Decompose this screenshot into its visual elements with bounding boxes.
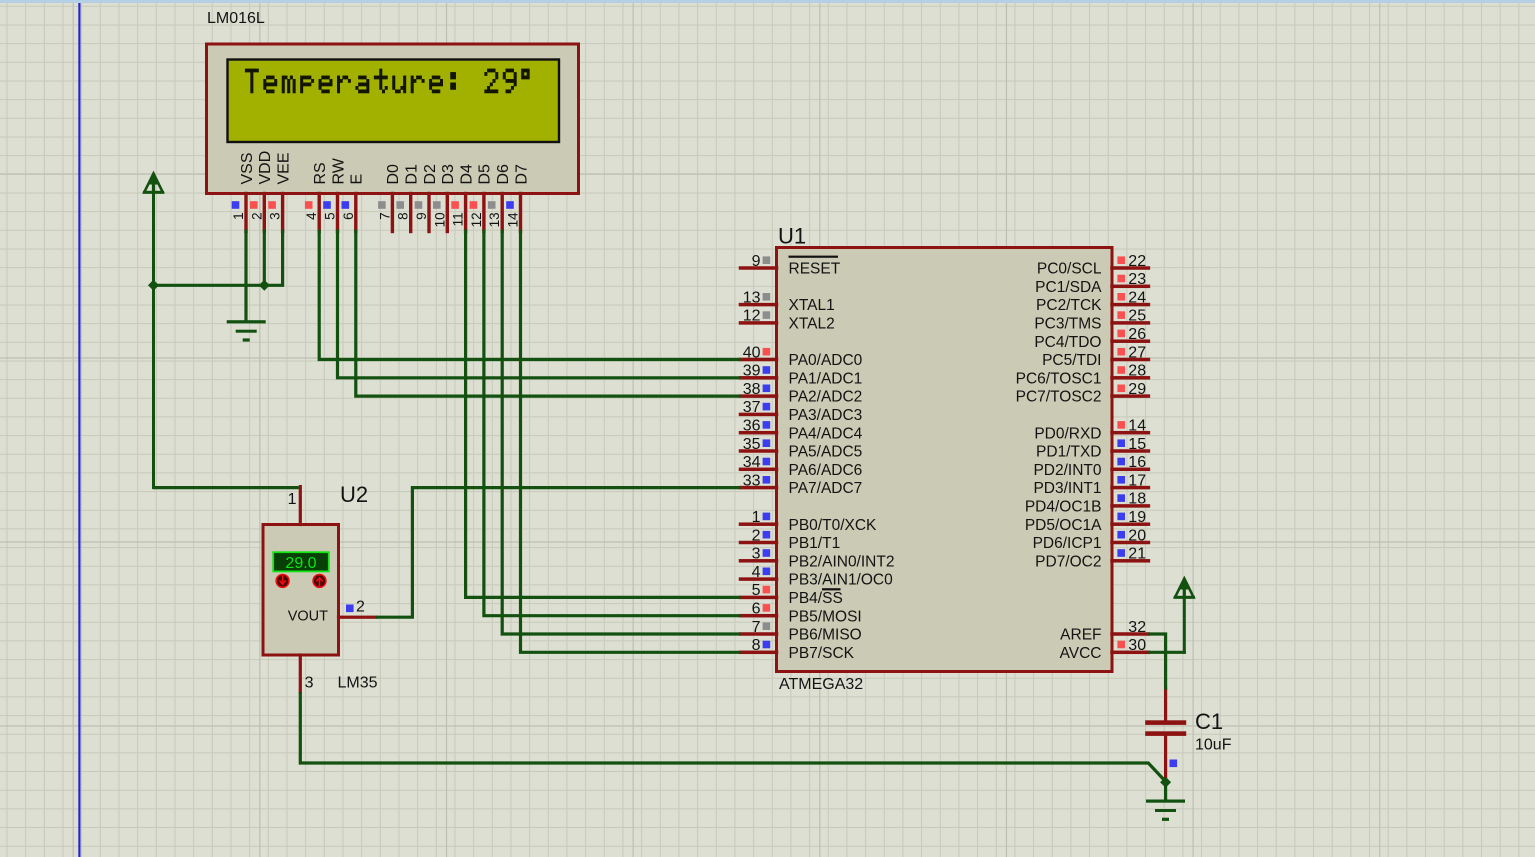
U1 pin 8 (PB7/SCK) left xyxy=(739,637,855,662)
svg-text:D6: D6 xyxy=(495,164,512,185)
svg-text:PA6/ADC6: PA6/ADC6 xyxy=(789,462,863,479)
svg-text:35: 35 xyxy=(743,436,761,453)
U1 pin 14 (PD0/RXD) right xyxy=(1034,418,1150,443)
svg-text:14: 14 xyxy=(1128,418,1146,435)
svg-text:PD7/OC2: PD7/OC2 xyxy=(1035,553,1101,570)
ground (below LCD VSS) xyxy=(227,320,266,341)
svg-text:9: 9 xyxy=(752,253,761,270)
wire vcc to U2 pin 1 xyxy=(154,486,299,489)
LCD pin 1 (VSS) xyxy=(231,152,256,233)
svg-text:1: 1 xyxy=(752,509,761,526)
U1 pin 12 (XTAL2) left xyxy=(739,308,835,333)
svg-text:PD6/ICP1: PD6/ICP1 xyxy=(1033,535,1102,552)
U1 pin 2 (PB1/T1) left xyxy=(739,527,840,552)
svg-text:PA7/ADC7: PA7/ADC7 xyxy=(789,480,863,497)
power terminal (top left) xyxy=(143,174,164,490)
svg-text:29.0: 29.0 xyxy=(285,555,316,572)
svg-text:VDD: VDD xyxy=(257,151,274,185)
U2 value label LM35 xyxy=(338,675,378,692)
U1 pin 24 (PC2/TCK) right xyxy=(1036,289,1150,314)
svg-text:ATMEGA32: ATMEGA32 xyxy=(779,676,863,693)
svg-text:U2: U2 xyxy=(340,482,368,507)
junction at ground net xyxy=(1160,777,1171,788)
svg-text:AVCC: AVCC xyxy=(1060,645,1102,662)
svg-text:D1: D1 xyxy=(404,164,421,185)
wire D4 to PB4 xyxy=(466,230,741,598)
U1 pin 28 (PC6/TOSC1) right xyxy=(1016,363,1151,388)
svg-text:14: 14 xyxy=(506,212,521,228)
U1 value label ATMEGA32 xyxy=(779,676,863,693)
wire U2 VOUT to PA7 xyxy=(376,488,741,618)
svg-text:PC0/SCL: PC0/SCL xyxy=(1037,261,1102,278)
U2 decrement knob xyxy=(276,575,289,588)
LCD module LM016L label xyxy=(207,10,265,27)
U2 reference label xyxy=(340,482,368,507)
svg-text:27: 27 xyxy=(1128,344,1146,361)
svg-text:40: 40 xyxy=(743,344,761,361)
svg-text:19: 19 xyxy=(1128,509,1146,526)
wire E to PA2 xyxy=(356,230,741,397)
svg-text:PC4/TDO: PC4/TDO xyxy=(1034,334,1101,351)
svg-text:D4: D4 xyxy=(458,164,475,185)
U1 reference label xyxy=(778,224,806,249)
microcontroller U1 ATMEGA32 body xyxy=(777,248,1113,672)
svg-text:PB7/SCK: PB7/SCK xyxy=(789,645,855,662)
ground (bottom right) xyxy=(1146,800,1185,821)
svg-text:PC1/SDA: PC1/SDA xyxy=(1035,279,1102,296)
capacitor C1 xyxy=(1145,687,1186,781)
U1 pin 23 (PC1/SDA) right xyxy=(1035,271,1150,296)
svg-text:PD3/INT1: PD3/INT1 xyxy=(1033,480,1101,497)
U1 pin 33 (PA7/ADC7) left xyxy=(739,472,863,497)
svg-text:28: 28 xyxy=(1128,363,1146,380)
svg-text:PA2/ADC2: PA2/ADC2 xyxy=(789,389,863,406)
svg-text:6: 6 xyxy=(752,601,761,618)
svg-text:4: 4 xyxy=(752,564,761,581)
svg-text:16: 16 xyxy=(1128,454,1146,471)
LCD pin 11 (D4) xyxy=(451,164,476,233)
U1 pin 5 (PB4/SS) left xyxy=(739,582,843,607)
wire D6 to PB6 xyxy=(502,230,740,635)
power terminal (right, AVCC) xyxy=(1174,579,1195,654)
C1 reference label xyxy=(1195,709,1223,734)
svg-text:24: 24 xyxy=(1128,289,1146,306)
svg-text:E: E xyxy=(349,174,366,185)
svg-text:PA3/ADC3: PA3/ADC3 xyxy=(789,407,863,424)
U1 pin 34 (PA6/ADC6) left xyxy=(739,454,863,479)
U1 pin 15 (PD1/TXD) right xyxy=(1036,436,1150,461)
U1 pin 32 (AREF) right xyxy=(1060,619,1150,644)
svg-text:RW: RW xyxy=(330,157,347,184)
svg-text:18: 18 xyxy=(1128,491,1146,508)
svg-text:2: 2 xyxy=(249,212,264,220)
svg-text:5: 5 xyxy=(323,212,338,220)
svg-text:PB1/T1: PB1/T1 xyxy=(789,535,841,552)
U1 pin 18 (PD4/OC1B) right xyxy=(1025,491,1150,516)
svg-text:VEE: VEE xyxy=(275,152,292,184)
wire U2 pin 3 to ground net xyxy=(300,692,1165,781)
svg-text:7: 7 xyxy=(377,212,392,220)
wire VDD down to vcc rail xyxy=(263,230,266,286)
U1 pin 22 (PC0/SCL) right xyxy=(1037,253,1150,278)
U2 increment knob xyxy=(313,575,326,588)
U2 pin 2 (VOUT) xyxy=(288,599,378,625)
svg-text:PB2/AIN0/INT2: PB2/AIN0/INT2 xyxy=(789,553,895,570)
svg-text:PC3/TMS: PC3/TMS xyxy=(1034,316,1101,333)
svg-text:RS: RS xyxy=(312,162,329,184)
LCD pin 10 (D3) xyxy=(432,164,457,233)
U1 pin 4 (PB3/AIN1/OC0) left xyxy=(739,564,893,589)
svg-text:D7: D7 xyxy=(513,164,530,185)
LCD pin 6 (E) xyxy=(341,174,366,233)
svg-text:VOUT: VOUT xyxy=(288,609,328,625)
svg-text:38: 38 xyxy=(743,381,761,398)
svg-text:LM35: LM35 xyxy=(338,675,378,692)
svg-text:VSS: VSS xyxy=(239,152,256,184)
svg-text:11: 11 xyxy=(451,212,466,226)
U1 pin 36 (PA4/ADC4) left xyxy=(739,418,863,443)
svg-text:PC5/TDI: PC5/TDI xyxy=(1042,352,1101,369)
svg-text:PD2/INT0: PD2/INT0 xyxy=(1033,462,1101,479)
svg-text:XTAL2: XTAL2 xyxy=(789,316,835,333)
LCD text "Temperature: 29°" xyxy=(245,69,530,94)
U1 pin 17 (PD3/INT1) right xyxy=(1033,472,1150,497)
svg-text:30: 30 xyxy=(1128,637,1146,654)
svg-text:8: 8 xyxy=(396,212,411,220)
U1 pin 20 (PD6/ICP1) right xyxy=(1033,527,1151,552)
svg-text:C1: C1 xyxy=(1195,709,1223,734)
wire AVCC to power terminal xyxy=(1148,651,1184,652)
junction on vcc rail at power line xyxy=(148,280,159,291)
svg-text:20: 20 xyxy=(1128,527,1146,544)
svg-text:PC2/TCK: PC2/TCK xyxy=(1036,297,1102,314)
svg-text:PD4/OC1B: PD4/OC1B xyxy=(1025,499,1102,516)
U2 temperature display 29.0 xyxy=(273,552,329,572)
svg-text:9: 9 xyxy=(414,212,429,220)
U1 pin 29 (PC7/TOSC2) right xyxy=(1016,381,1151,406)
U1 pin 30 (AVCC) right xyxy=(1060,637,1151,662)
svg-text:1: 1 xyxy=(231,212,246,220)
wire VSS to ground xyxy=(244,230,247,322)
svg-text:7: 7 xyxy=(752,619,761,636)
svg-text:PB4/SS: PB4/SS xyxy=(789,590,843,607)
LCD pin 4 (RS) xyxy=(304,162,329,233)
U1 pin 26 (PC4/TDO) right xyxy=(1034,326,1150,351)
svg-text:RESET: RESET xyxy=(789,261,841,278)
svg-text:3: 3 xyxy=(268,212,283,220)
svg-text:PD0/RXD: PD0/RXD xyxy=(1034,425,1101,442)
svg-text:3: 3 xyxy=(305,675,314,692)
svg-text:PA4/ADC4: PA4/ADC4 xyxy=(789,425,863,442)
U1 pin 35 (PA5/ADC5) left xyxy=(739,436,863,461)
U1 pin 21 (PD7/OC2) right xyxy=(1035,546,1150,571)
U1 pin 39 (PA1/ADC1) left xyxy=(739,363,863,388)
U1 pin 37 (PA3/ADC3) left xyxy=(739,399,863,424)
LCD pin 3 (VEE) xyxy=(268,152,293,233)
svg-text:U1: U1 xyxy=(778,224,806,249)
U1 pin 13 (XTAL1) left xyxy=(739,289,835,314)
U1 pin 38 (PA2/ADC2) left xyxy=(739,381,863,406)
svg-text:PA5/ADC5: PA5/ADC5 xyxy=(789,444,863,461)
svg-text:12: 12 xyxy=(469,212,484,227)
svg-text:26: 26 xyxy=(1128,326,1146,343)
svg-text:10uF: 10uF xyxy=(1195,737,1232,754)
LCD pin 2 (VDD) xyxy=(249,151,274,233)
wire capacitor bottom to ground xyxy=(1164,779,1167,800)
wire D5 to PB5 xyxy=(484,230,741,616)
svg-text:XTAL1: XTAL1 xyxy=(789,297,835,314)
svg-text:PC7/TOSC2: PC7/TOSC2 xyxy=(1016,389,1102,406)
svg-text:22: 22 xyxy=(1128,253,1146,270)
svg-text:4: 4 xyxy=(304,212,319,220)
U1 pin 40 (PA0/ADC0) left xyxy=(739,344,863,369)
U1 pin 6 (PB5/MOSI) left xyxy=(739,601,862,626)
U1 pin 27 (PC5/TDI) right xyxy=(1042,344,1150,369)
LCD pin 9 (D2) xyxy=(414,164,439,233)
svg-text:10: 10 xyxy=(432,212,447,227)
svg-text:37: 37 xyxy=(743,399,761,416)
LCD pin 13 (D6) xyxy=(487,164,512,233)
U1 pin 7 (PB6/MISO) left xyxy=(739,619,862,644)
svg-text:D3: D3 xyxy=(440,164,457,185)
U1 pin 9 (RESET) left xyxy=(739,253,841,278)
sheet top edge xyxy=(0,0,1535,3)
LCD pin 12 (D5) xyxy=(469,164,494,233)
LCD pin 7 (D0) xyxy=(377,164,402,233)
sheet left border xyxy=(78,3,80,857)
wire D7 to PB7 xyxy=(521,230,741,653)
svg-text:PC6/TOSC1: PC6/TOSC1 xyxy=(1016,370,1102,387)
LCD pin 14 (D7) xyxy=(506,164,531,233)
U1 pin 1 (PB0/T0/XCK) left xyxy=(739,509,877,534)
svg-text:36: 36 xyxy=(743,418,761,435)
svg-text:PB3/AIN1/OC0: PB3/AIN1/OC0 xyxy=(789,572,894,589)
wire VEE to vcc rail xyxy=(153,230,283,286)
svg-text:33: 33 xyxy=(743,472,761,489)
svg-text:6: 6 xyxy=(341,212,356,220)
svg-text:2: 2 xyxy=(356,599,365,616)
U2 pin 1 xyxy=(288,485,302,526)
svg-text:PB5/MOSI: PB5/MOSI xyxy=(789,608,862,625)
U1 pin 25 (PC3/TMS) right xyxy=(1034,308,1150,333)
wire RW to PA1 xyxy=(338,230,741,378)
svg-text:17: 17 xyxy=(1128,472,1146,489)
temperature sensor U2 body xyxy=(263,525,339,656)
svg-text:PB6/MISO: PB6/MISO xyxy=(789,627,862,644)
svg-text:AREF: AREF xyxy=(1060,627,1101,644)
LCD screen xyxy=(228,60,560,143)
LCD pin 5 (RW) xyxy=(323,157,348,233)
svg-text:D2: D2 xyxy=(422,164,439,185)
U2 pin 3 xyxy=(299,653,314,694)
svg-text:8: 8 xyxy=(752,637,761,654)
junction on vcc rail at VDD xyxy=(259,280,270,291)
wire AREF to capacitor xyxy=(1148,634,1165,690)
svg-text:2: 2 xyxy=(752,527,761,544)
C1 node indicator square xyxy=(1170,760,1178,768)
svg-text:29: 29 xyxy=(1128,381,1146,398)
svg-text:PD5/OC1A: PD5/OC1A xyxy=(1025,517,1102,534)
svg-text:23: 23 xyxy=(1128,271,1146,288)
svg-text:32: 32 xyxy=(1128,619,1146,636)
svg-text:15: 15 xyxy=(1128,436,1146,453)
svg-text:5: 5 xyxy=(752,582,761,599)
LCD pin 8 (D1) xyxy=(396,164,421,233)
svg-text:PB0/T0/XCK: PB0/T0/XCK xyxy=(789,517,878,534)
svg-text:13: 13 xyxy=(743,289,761,306)
U1 pin 16 (PD2/INT0) right xyxy=(1033,454,1150,479)
svg-text:LM016L: LM016L xyxy=(207,10,265,27)
svg-text:13: 13 xyxy=(487,212,502,227)
svg-text:39: 39 xyxy=(743,363,761,380)
svg-text:PD1/TXD: PD1/TXD xyxy=(1036,444,1101,461)
LCD module body xyxy=(207,44,579,194)
svg-text:12: 12 xyxy=(743,308,761,325)
U1 pin 19 (PD5/OC1A) right xyxy=(1025,509,1150,534)
svg-text:D5: D5 xyxy=(477,164,494,185)
svg-text:PA1/ADC1: PA1/ADC1 xyxy=(789,370,863,387)
svg-text:1: 1 xyxy=(288,491,297,508)
U1 pin 3 (PB2/AIN0/INT2) left xyxy=(739,546,895,571)
svg-text:D0: D0 xyxy=(385,164,402,185)
svg-text:25: 25 xyxy=(1128,308,1146,325)
C1 value 10uF xyxy=(1195,737,1232,754)
svg-text:3: 3 xyxy=(752,546,761,563)
svg-text:34: 34 xyxy=(743,454,761,471)
svg-text:PA0/ADC0: PA0/ADC0 xyxy=(789,352,863,369)
svg-text:21: 21 xyxy=(1128,546,1146,563)
wire RS to PA0 xyxy=(319,230,740,360)
